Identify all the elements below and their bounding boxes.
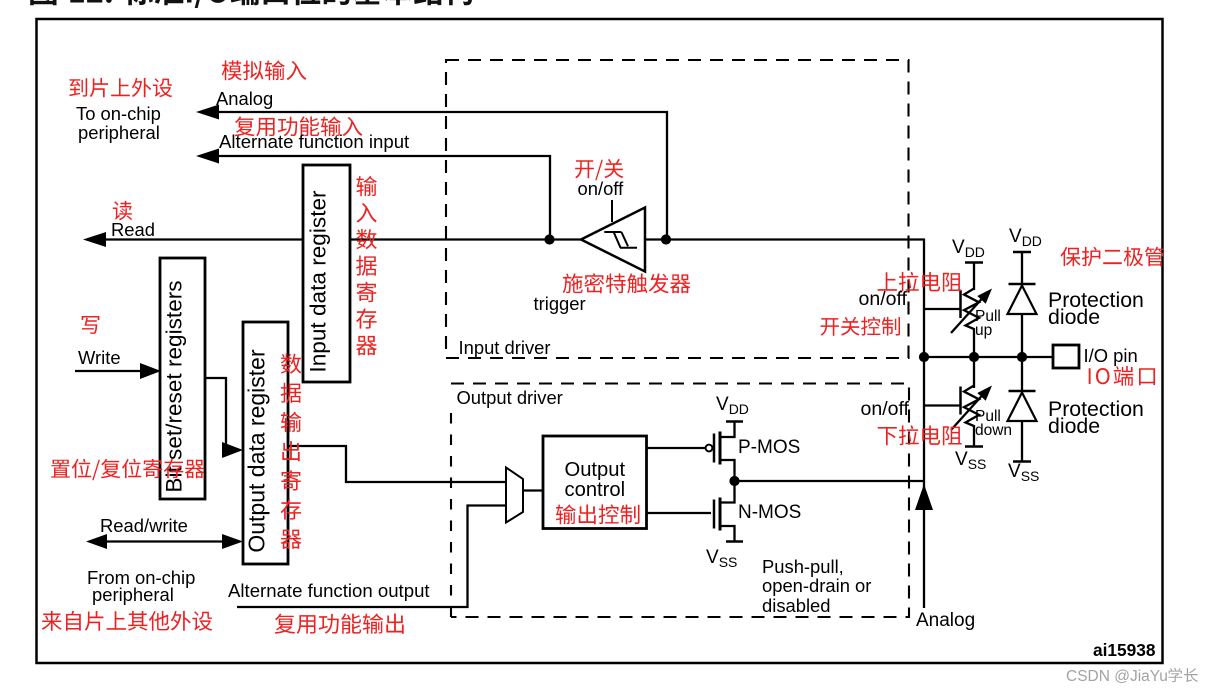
- svg-text:Output data register: Output data register: [244, 349, 270, 553]
- svg-text:Input data register: Input data register: [306, 190, 331, 373]
- svg-text:Bit set/reset registers: Bit set/reset registers: [162, 280, 187, 492]
